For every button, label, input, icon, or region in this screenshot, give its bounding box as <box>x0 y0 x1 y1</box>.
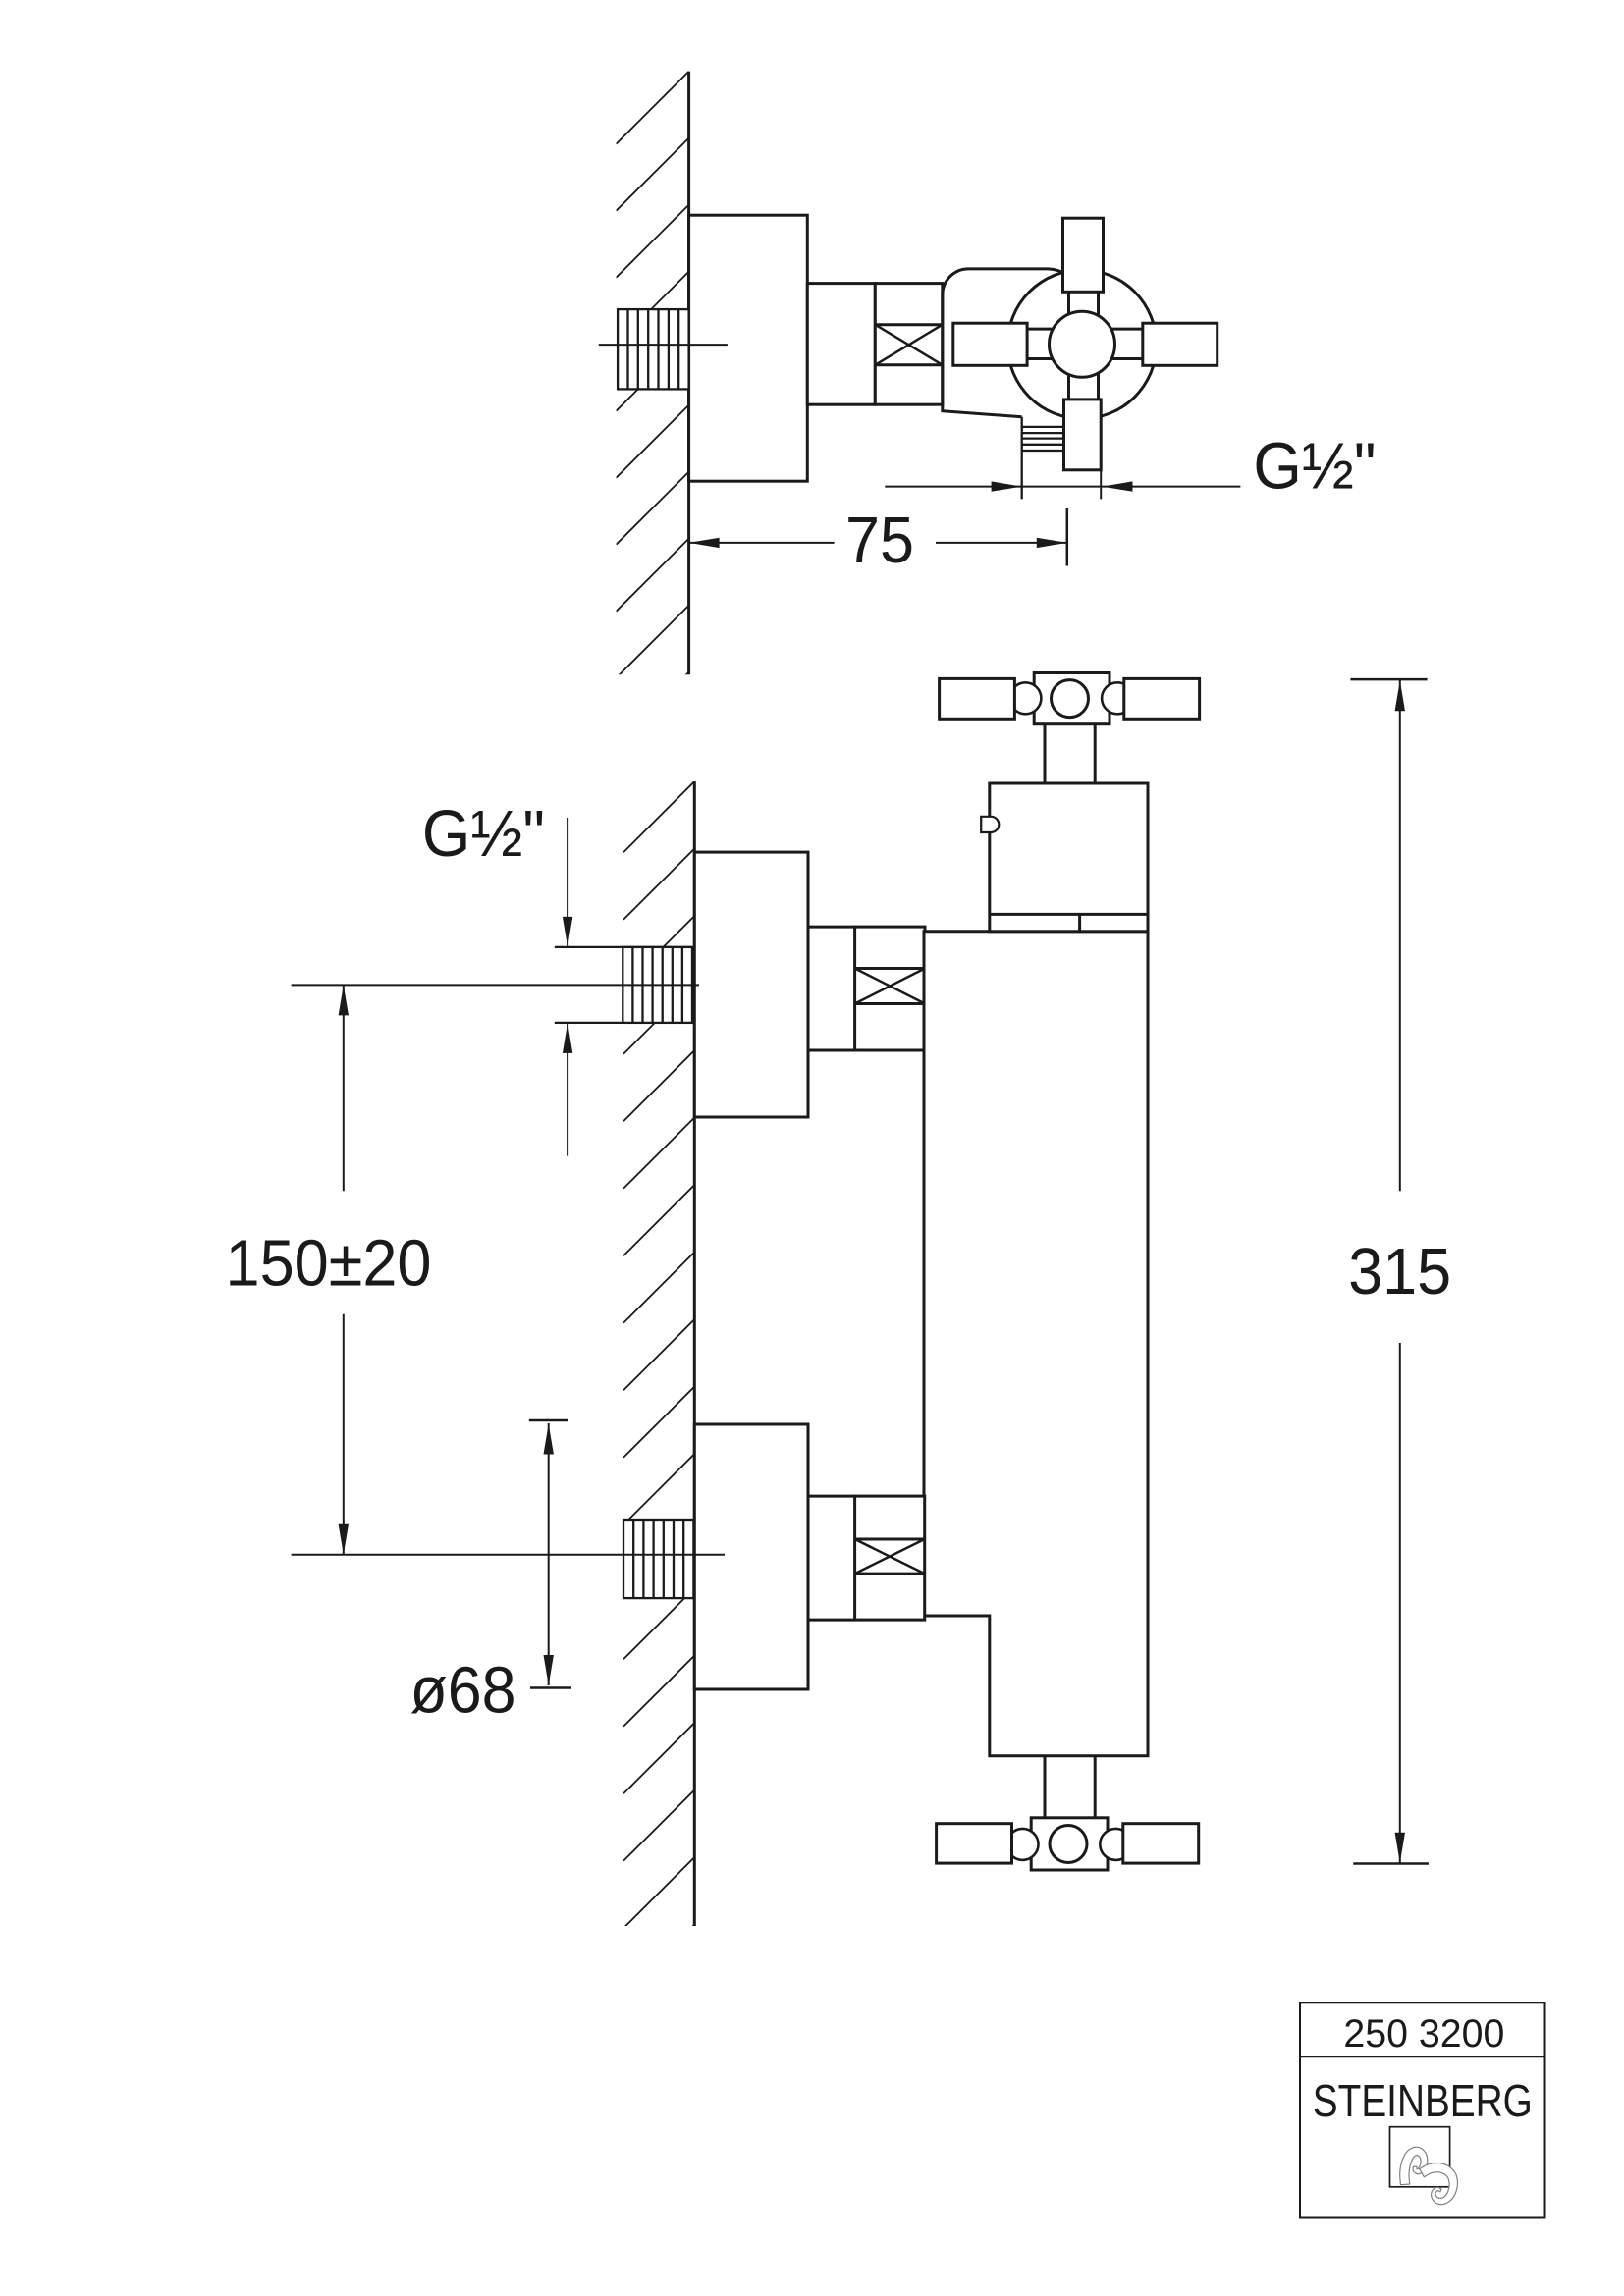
svg-text:G½": G½" <box>422 797 545 871</box>
svg-text:315: 315 <box>1348 1235 1451 1308</box>
svg-text:STEINBERG: STEINBERG <box>1313 2075 1533 2126</box>
svg-text:250 3200: 250 3200 <box>1343 2012 1504 2056</box>
svg-text:G½": G½" <box>1253 429 1376 503</box>
svg-text:ø68: ø68 <box>410 1653 516 1727</box>
svg-text:75: 75 <box>845 504 914 577</box>
svg-text:150±20: 150±20 <box>226 1227 432 1301</box>
